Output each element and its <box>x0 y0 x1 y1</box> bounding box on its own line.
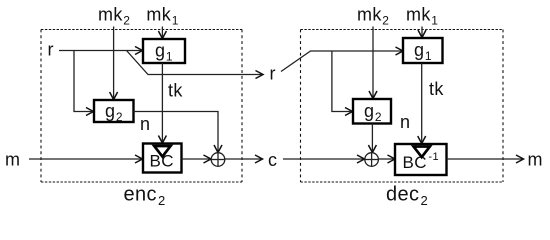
wire r branch to g2 (dec) <box>332 51 351 112</box>
dashed box enc2 <box>41 30 242 183</box>
block BC-1 (dec) <box>395 144 447 175</box>
wire xor to BC-1 (dec) <box>378 158 393 160</box>
dashed box dec2 <box>301 30 504 183</box>
svg-text:m: m <box>528 150 543 170</box>
wire mk1 to g1 (dec) <box>421 27 423 37</box>
wire BC-1 to m (dec output) <box>447 158 523 160</box>
wire BC to xor (enc) <box>182 158 210 160</box>
svg-text:r: r <box>270 64 276 84</box>
wire xor to c <box>225 158 261 160</box>
wire c to xor (dec) <box>283 158 363 160</box>
svg-text:c: c <box>268 150 277 170</box>
block g1 (enc) <box>143 39 185 63</box>
wire mk2 to g2 (enc) <box>113 27 115 99</box>
xor node (enc) <box>211 153 225 167</box>
svg-text:m: m <box>5 150 20 170</box>
wire r to g1 (enc) <box>59 50 141 52</box>
block g2 (enc) <box>94 100 134 122</box>
block g2 (dec) <box>353 99 391 124</box>
svg-text:n: n <box>400 112 410 132</box>
wire mk1 to g1 (enc) <box>161 27 163 38</box>
block g1 (dec) <box>403 38 443 63</box>
wire r forward out of enc2 <box>127 51 262 75</box>
wire n from g2 to xor (enc) <box>134 112 219 152</box>
wire r into dec2 to g1 <box>281 51 402 72</box>
wire mk2 to g2 (dec) <box>372 27 374 98</box>
svg-text:r: r <box>48 40 54 60</box>
tweak arrow into BC (enc) <box>154 146 170 157</box>
wire tk from g1 to BC-1 (dec) <box>421 63 423 142</box>
block BC (enc) <box>143 144 182 173</box>
svg-text:n: n <box>140 114 150 134</box>
wire tk from g1 to BC (enc) <box>161 63 163 142</box>
svg-text:tk: tk <box>429 79 444 99</box>
svg-text:tk: tk <box>168 81 183 101</box>
wire m to BC (enc) <box>29 158 141 160</box>
wire r branch to g2 (enc) <box>74 51 92 112</box>
wire n from g2 to xor (dec) <box>371 124 373 152</box>
tweak arrow into BC-1 (dec) <box>414 147 430 158</box>
xor node (dec) <box>365 153 379 167</box>
